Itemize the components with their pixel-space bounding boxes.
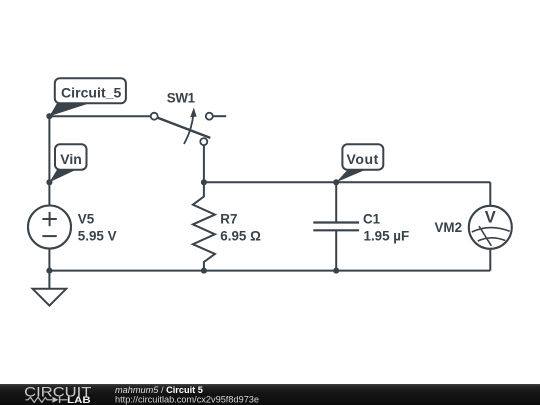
ground: [33, 289, 67, 306]
wire V5 bottom to ground: [48, 249, 50, 290]
svg-text:V5: V5: [78, 211, 95, 226]
svg-text:http://circuitlab.com/cx2v95f8: http://circuitlab.com/cx2v95f8d973e: [115, 394, 259, 404]
svg-text:Circuit_5: Circuit_5: [61, 84, 122, 100]
voltmeter VM2: [469, 206, 512, 249]
junction node R7 bottom: [201, 268, 207, 274]
wire SW1 pole down to top rail: [203, 145, 205, 182]
svg-text:R7: R7: [220, 211, 237, 226]
svg-text:6.95 Ω: 6.95 Ω: [220, 229, 261, 244]
wire left vertical from top node to V5 top: [48, 116, 50, 205]
capacitor C1: [313, 182, 359, 270]
net label Vin: [49, 144, 86, 182]
wire top rail: [204, 181, 490, 183]
switch SW1: [151, 108, 213, 146]
svg-text:LAB: LAB: [67, 395, 91, 405]
voltage source V5: [28, 206, 71, 249]
svg-text:Vin: Vin: [60, 151, 82, 167]
wire bottom rail: [49, 270, 490, 272]
wire VM2 bottom to bottom rail: [489, 249, 491, 271]
net label Circuit_5: [49, 78, 125, 116]
resistor R7: [193, 182, 215, 270]
svg-text:SW1: SW1: [167, 90, 196, 105]
junction node SW1 to rail: [201, 179, 207, 185]
junction node top-left: [46, 113, 52, 119]
svg-text:5.95 V: 5.95 V: [78, 229, 117, 244]
footer bar: [0, 384, 540, 405]
junction node Vin: [46, 179, 52, 185]
svg-text:1.95 µF: 1.95 µF: [364, 229, 410, 244]
wire SW1 right stub: [213, 115, 226, 117]
junction node Vout: [333, 179, 339, 185]
junction node C1 bottom: [333, 268, 339, 274]
wire right vertical to VM2 top: [489, 182, 491, 206]
junction node V5 bottom: [46, 268, 52, 274]
svg-text:C1: C1: [363, 211, 381, 226]
svg-text:Vout: Vout: [347, 151, 379, 167]
net label Vout: [336, 144, 383, 182]
svg-text:VM2: VM2: [435, 220, 463, 235]
svg-text:V: V: [485, 209, 496, 227]
footer text: [115, 385, 259, 404]
wire top from node to SW1 left terminal: [49, 115, 151, 117]
CircuitLab logo: [24, 383, 92, 405]
